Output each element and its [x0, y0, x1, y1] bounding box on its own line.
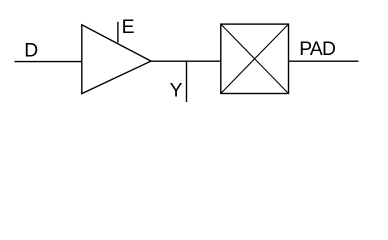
wire: PAD output net [289, 60, 359, 62]
tri-state buffer U1 (triangle) [82, 25, 151, 94]
svg-text:Y: Y [170, 81, 183, 102]
pad cell (box with X) [221, 24, 289, 93]
wire: buffer output to pad box [151, 60, 221, 62]
pad box diagonal \ [221, 24, 289, 93]
svg-text:E: E [122, 17, 135, 38]
pad box diagonal / [221, 24, 289, 93]
svg-text:D: D [24, 41, 38, 62]
svg-text:PAD: PAD [299, 39, 335, 60]
wire: D input net [15, 61, 82, 63]
wire: Y branch (vertical tap) [186, 61, 188, 102]
wire: E enable stub [117, 22, 119, 43]
